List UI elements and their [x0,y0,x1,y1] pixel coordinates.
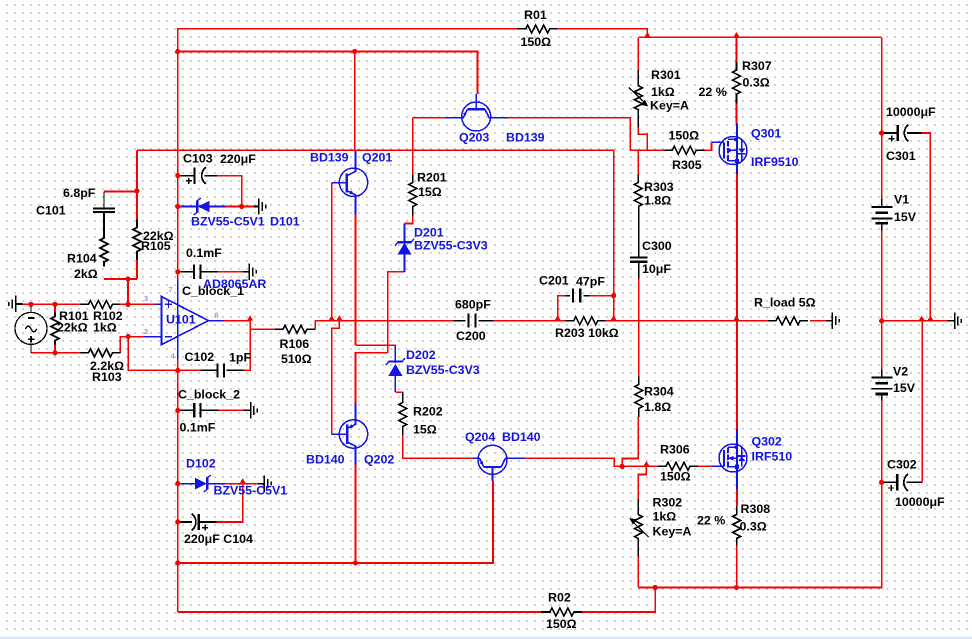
zener diode D101 BZV55-C5V1 [178,198,226,215]
svg-text:220μF C104: 220μF C104 [184,532,253,546]
wire R106 left lead red [250,328,275,330]
svg-text:D101: D101 [270,215,300,229]
wire pot R302 bottom to bus587 [637,556,639,588]
wire R307 to Q301 drain [736,104,738,124]
svg-text:Q203: Q203 [459,131,489,145]
svg-text:1.8Ω: 1.8Ω [644,400,671,414]
svg-text:BZV55-C5V1: BZV55-C5V1 [214,484,288,498]
resistor R01 150 ohm top rail [517,25,557,33]
wire C201 branch riser [558,296,566,321]
svg-text:0.3Ω: 0.3Ω [740,520,767,534]
svg-text:0.1mF: 0.1mF [180,421,216,435]
wire rail2 left: opamp column to Q203 collector [178,52,478,95]
wire V1 bottom to mid node [881,231,883,370]
zener diode D202 BZV55-C3V3 [386,345,405,392]
ground for D102 [258,483,264,485]
capacitor C300 10uF vertical [630,257,647,261]
svg-text:R304: R304 [644,385,674,399]
svg-text:C302: C302 [887,458,917,472]
wire pot R302 hang from bus466 [638,466,646,499]
svg-text:IRF9510: IRF9510 [751,155,799,169]
transistor Q202 BD140 [332,403,368,465]
svg-text:C300: C300 [642,239,672,253]
op-amp input pin2 lead [144,336,162,338]
wire bottom rail left riser [177,563,179,612]
svg-text:Q202: Q202 [364,453,394,467]
AC source plus [28,336,35,343]
wire node A down to +input row [127,279,129,304]
potentiometer R302 arrow [633,523,648,538]
resistor R305 150 [664,146,704,154]
resistor R202 15 vertical [399,392,407,435]
capacitor C200 680pF [453,320,493,322]
wire opamp V- column down (C102/C_block_2/D102/C104) [177,359,179,563]
svg-text:1.8Ω: 1.8Ω [644,194,671,208]
wire R105 top corner [136,150,138,191]
svg-text:R201: R201 [417,171,447,185]
svg-text:R302: R302 [653,496,683,510]
wire node C201 right to signal line [613,296,615,321]
svg-text:BZV55-C3V3: BZV55-C3V3 [414,239,488,253]
capacitor C_block_2 0.1mF [178,409,219,411]
wire R105 bottom to node [136,260,138,280]
wire Q302 source to R308 [736,489,738,506]
svg-text:BZV55-C5V1: BZV55-C5V1 [191,215,265,229]
wire node A bottom of C101/R105 [104,278,137,280]
transistor Q204 BD140 horizontal [473,445,525,481]
wire V2 bottom red [881,401,883,483]
wire C104 right red riser to D102 row [216,484,242,522]
wire C300 bottom to R304 [638,279,640,377]
resistor R103 2.2k [80,349,120,357]
svg-text:R306: R306 [660,443,690,457]
svg-text:15Ω: 15Ω [418,185,442,199]
capacitor C201 47pF [566,295,590,297]
svg-text:1kΩ: 1kΩ [653,510,677,524]
svg-text:150Ω: 150Ω [546,617,577,631]
MOSFET Q301 IRF9510 [712,124,748,175]
wire signal line C200 to R203 [494,320,566,322]
wire bias bus right section [630,149,664,151]
resistor R203 10k [566,317,606,325]
svg-text:D202: D202 [406,348,436,362]
potentiometer R301 1k [634,70,642,127]
plus sign C103 [186,178,192,184]
capacitor C302 10000uF electrolytic [882,481,923,483]
Q203 base blue stub [446,117,462,119]
ground for D101 [254,206,259,208]
wire Q204 right lead to bus466 [525,458,656,466]
wire feedback bus y150 from R105 column to right drop [137,150,614,295]
C300 top connection black [638,207,640,257]
wire Q201 emitter down [355,215,357,346]
svg-text:Q302: Q302 [752,435,782,449]
wire D201 branch over to Q202 emitter column [356,353,388,403]
svg-text:R202: R202 [413,405,443,419]
resistor R306 150 [658,462,698,470]
wire D102 right red to ground [225,483,258,485]
svg-text:D102: D102 [186,457,216,471]
potentiometer R302 1k [634,499,642,556]
svg-text:10μF: 10μF [642,262,671,276]
svg-text:1kΩ: 1kΩ [651,85,675,99]
svg-text:BZV55-C3V3: BZV55-C3V3 [406,363,480,377]
junction dots [28,302,33,307]
op-amp power rail vertical pins [177,280,179,359]
svg-text:22 %: 22 % [699,85,727,99]
wire C_block_1 right red segment [218,271,243,273]
wire C302 right red corner [921,321,923,483]
svg-text:680pF: 680pF [455,298,491,312]
wire Q301 source to output node [736,174,738,321]
wire input row y304 [23,303,81,305]
wire Q201 emitter jog right to D202 [356,344,396,346]
svg-text:R105: R105 [141,239,171,253]
wire Q201 base drop to signal line [331,183,333,321]
svg-text:AD8065AR: AD8065AR [203,277,266,291]
wire R_load right red to ground [810,320,826,322]
wire R105 top lead [136,191,138,220]
op-amp plus marking [165,301,172,308]
wire output node to Q302 drain [736,321,738,429]
svg-text:C301: C301 [886,149,916,163]
plus sign C301 [889,136,895,142]
svg-text:22 %: 22 % [697,514,725,528]
Q204 left blue stub [473,457,480,459]
svg-text:3: 3 [144,294,148,303]
svg-text:C103: C103 [183,152,213,166]
op-amp output pin6 lead [209,320,225,322]
svg-text:R303: R303 [644,180,674,194]
capacitor C301 10000uF electrolytic [882,132,922,134]
wire D101 right red to ground [226,206,254,208]
wire C101 top to R105 junction [104,191,137,193]
svg-text:R203 10kΩ: R203 10kΩ [555,326,619,340]
wire V1 top red from rail [881,37,883,199]
resistor R304 1.8 vertical [635,377,643,418]
resistor R02 150 ohm bottom rail [541,608,582,616]
svg-text:2kΩ: 2kΩ [74,267,98,281]
svg-text:Key=A: Key=A [650,99,689,113]
svg-text:6: 6 [215,311,219,320]
capacitor C101 6.8pF vertical [93,192,115,213]
svg-text:R104: R104 [67,252,97,266]
svg-text:0.3Ω: 0.3Ω [743,76,770,90]
svg-text:47pF: 47pF [576,275,605,289]
wire C103 right lead red to D101 column [217,176,242,207]
svg-text:220μF: 220μF [220,152,256,166]
zener diode D102 BZV55-C5V1 [178,475,225,492]
svg-text:1pF: 1pF [229,351,251,365]
svg-text:150Ω: 150Ω [660,470,691,484]
ground for C_block_1 [243,271,249,273]
wire C102 black-to-out red stub [217,271,219,273]
resistor R102 1k [80,300,120,308]
op-amp U101 triangle [162,297,209,345]
ground right mid [947,320,954,322]
svg-text:Q204: Q204 [465,430,495,444]
svg-text:R01: R01 [524,8,547,22]
svg-text:Q301: Q301 [751,127,781,141]
svg-text:C200: C200 [456,329,486,343]
MOSFET Q302 IRF510 [712,429,748,489]
wire source bottom row [31,352,80,354]
wire R103 right corner up to -input row [120,337,143,353]
svg-text:R_load 5Ω: R_load 5Ω [754,296,816,310]
resistor R307 0.3 vertical [733,62,741,104]
wire opamp output [224,320,250,322]
svg-text:BD139: BD139 [506,131,545,145]
svg-text:6.8pF: 6.8pF [63,186,96,200]
resistor R_load 5 ohm [768,317,808,325]
wire Q203 base lead red [413,117,446,119]
wire R_load left red [737,320,769,322]
transistor Q201 BD139 [332,151,368,215]
wire R306 right red to Q302 gate [698,465,712,467]
wire R201 bottom jog to D201 [405,216,413,224]
wire R301 bottom jog to bus150 [638,126,647,150]
svg-text:Q201: Q201 [362,151,392,165]
capacitor C_block_1 0.1mF [178,271,218,273]
resistor R201 15 vertical [409,175,417,216]
svg-text:2: 2 [144,327,148,336]
wire R306 left red [622,465,658,467]
svg-text:10000μF: 10000μF [886,105,936,119]
ground for R_load [826,320,832,322]
wire bus587 to right column [638,401,881,588]
resistor R104 2k vertical [100,212,108,267]
svg-text:V1: V1 [894,193,909,207]
AC source minus [28,317,35,319]
wire R305 right jog up to Q301 gate [704,142,711,150]
svg-text:R106: R106 [280,337,310,351]
wire C_block_2 right red [219,409,244,411]
wire bottom rail R02 right segment [582,588,655,613]
wire Q203 base column to R201 [412,118,414,175]
battery V1 15V [881,199,883,231]
svg-text:C102: C102 [185,350,215,364]
wire Q201 collector drop from rail2 [354,52,356,151]
wire D201 bottom jog left [388,272,405,353]
wire bottom rail R02 left segment [178,611,541,613]
wire Q202 collector down to bus563 [355,465,357,564]
wire R106 right jog up to signal line [314,321,316,330]
wire signal line R106 to C200 [315,320,453,322]
wire V+ rail to C301/V1 column [638,36,881,38]
svg-text:C101: C101 [36,204,66,218]
wire R101 top lead red [54,304,56,312]
svg-text:15Ω: 15Ω [413,423,437,437]
svg-text:U101: U101 [166,313,196,327]
junction arrows (net connection marks) [247,315,253,320]
resistor R105 22k vertical [133,220,141,260]
svg-text:R308: R308 [741,502,771,516]
svg-text:7: 7 [169,285,173,294]
wire C301 right red corner [922,133,931,321]
op-amp minus marking [165,336,172,338]
capacitor C104 220uF electrolytic mirrored [178,521,217,523]
svg-text:15V: 15V [894,210,917,224]
battery V2 15V [881,369,883,400]
svg-text:510Ω: 510Ω [281,352,312,366]
plus sign C302 [888,485,894,491]
wire output node down through C102 right [243,321,250,371]
wire emitter bus y563 [178,481,493,563]
svg-text:22kΩ: 22kΩ [57,321,88,335]
resistor R303 1.8 vertical [634,175,642,207]
transistor Q203 BD139 horizontal [446,94,509,131]
svg-text:0.1mF: 0.1mF [186,246,222,260]
svg-text:BD139: BD139 [310,151,349,165]
svg-text:C201: C201 [539,274,569,288]
ground for C_block_2 [243,409,250,411]
capacitor C102 1pF [200,369,243,371]
svg-text:BD140: BD140 [502,430,541,444]
svg-text:R301: R301 [651,68,681,82]
svg-text:D201: D201 [414,226,444,240]
ground input left [16,303,23,305]
resistor R308 0.3 vertical [733,506,741,546]
wire C201 right lead red [589,295,613,297]
svg-text:R307: R307 [742,59,772,73]
wire R308 bottom to bus587 [736,546,738,588]
wire Q203 emitter right lead [508,118,630,150]
svg-text:15V: 15V [893,381,916,395]
C300 bottom lead black [638,263,640,279]
plus sign C104 [202,525,208,531]
svg-text:V2: V2 [893,365,908,379]
svg-text:1kΩ: 1kΩ [93,321,117,335]
wire signal jog down to Q202 base column [332,321,340,435]
wire D202 bottom jog to R202 [395,391,402,393]
svg-text:BD140: BD140 [306,453,345,467]
wire top rail R01 right segment [557,29,647,37]
potentiometer R301 arrow [629,88,644,102]
wire mid ground segment right side [882,320,948,322]
wire R307 top lead red [736,37,738,62]
capacitor C103 220uF electrolytic [178,175,217,177]
wire R101 bottom lead red [54,345,56,353]
AC source top lead [30,304,32,312]
wire signal line R203 to output column [606,320,737,322]
svg-text:150Ω: 150Ω [521,35,552,49]
svg-text:R103: R103 [92,370,122,384]
resistor R101 22k vertical [51,313,59,345]
svg-text:10000μF: 10000μF [895,495,945,509]
AC source sine [25,326,36,332]
op-amp input pin3 lead [155,303,162,305]
svg-text:150Ω: 150Ω [669,129,700,143]
svg-text:Key=A: Key=A [653,525,692,539]
zener diode D201 BZV55-C3V3 [395,224,414,272]
svg-text:R02: R02 [548,591,571,605]
wire R304 bottom jog to bus466 [622,417,638,466]
wire R202 bottom to Q204 base [403,435,473,458]
resistor R106 510 [275,325,315,333]
svg-text:IRF510: IRF510 [752,450,793,464]
AC source V101 circle [15,312,47,344]
wire top rail R01 left segment [178,29,517,280]
wire R102 right to +input [120,303,155,305]
wire R303 top hang [637,150,639,174]
wire R301 top lead red [637,37,639,70]
svg-text:C_block_2: C_block_2 [178,388,240,402]
wire -input node down to C102 row [128,337,200,371]
svg-text:R305: R305 [672,158,702,172]
